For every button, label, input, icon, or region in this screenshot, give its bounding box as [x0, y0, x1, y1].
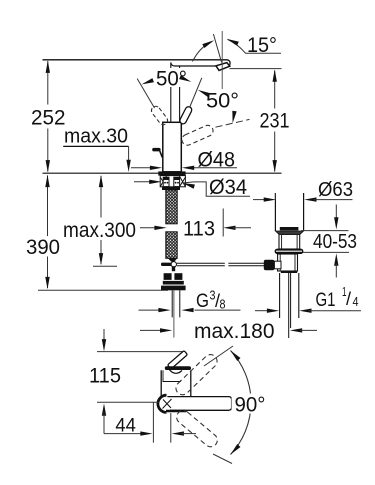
svg-text:231: 231 [260, 109, 290, 133]
max.300 bottom boundary line [93, 265, 117, 267]
dimension G1 1/4 [255, 310, 271, 312]
bottom view: lever tilted bar [167, 351, 187, 370]
drain locknut [275, 249, 304, 254]
50deg second: upper arrow [197, 88, 210, 97]
dimension max.180 [140, 329, 164, 331]
drain flange walls [274, 193, 276, 231]
svg-text:90°: 90° [235, 393, 266, 417]
spout pipes [170, 63, 172, 123]
dimension 44 [104, 433, 144, 435]
svg-text:4: 4 [353, 294, 359, 309]
bottom view: spout capsule [167, 397, 231, 411]
dimension 252 vertical line [47, 61, 49, 105]
svg-text:G1: G1 [316, 289, 336, 311]
pop-up rod knob [152, 148, 160, 152]
dashed spout up-right [173, 352, 220, 398]
extension line right of tip (231 top) [230, 68, 282, 70]
dashed right handle extension line [216, 119, 250, 127]
dimension diam48 [131, 167, 153, 169]
spout underside line [171, 63, 224, 67]
top extension line of bottom view [97, 351, 185, 353]
svg-text:Ø48: Ø48 [198, 148, 236, 172]
braided hose lower [166, 232, 177, 258]
center rod extension line [173, 290, 175, 337]
mounting flange black top bar [158, 171, 185, 175]
15 deg left arc with arrow [193, 42, 212, 62]
drain lower body [278, 254, 298, 271]
svg-text:/: / [346, 289, 351, 309]
drain upper body [279, 234, 300, 249]
15 deg right arc leader [228, 40, 281, 54]
dimension 115 [103, 329, 105, 346]
bottom view: lever horizontal bar [165, 366, 191, 370]
pop-up rod cross fitting [161, 263, 177, 266]
svg-text:44: 44 [115, 415, 136, 437]
aerator tip rhombus [216, 63, 230, 71]
spout top line (also extension line for 252) [43, 60, 231, 65]
svg-text:Ø63: Ø63 [318, 178, 353, 201]
crossing dashes inside ball [163, 399, 172, 409]
left extension line to ball [97, 401, 159, 403]
dimension diam34 leader left [134, 181, 153, 183]
horizontal pop-up rod [177, 262, 225, 264]
dimension G3/8 arrows [139, 309, 162, 311]
dimension 40-53 [301, 230, 349, 232]
hose end cone [168, 258, 177, 263]
dimension max.300 vertical [100, 176, 102, 218]
spout centerline [221, 31, 223, 89]
50deg first: right arrow [179, 75, 192, 84]
drain tailpipe [279, 273, 281, 318]
ball joint [158, 395, 167, 412]
bottom view: body cylinder [161, 370, 191, 397]
svg-text:50°: 50° [206, 89, 239, 113]
dimension 390 vertical [47, 176, 49, 237]
flange body with pipe sections [160, 176, 185, 187]
dashed left handle extension line [137, 79, 154, 108]
spout underside thick segment [166, 410, 186, 412]
svg-text:max.180: max.180 [194, 319, 275, 343]
svg-text:max.30: max.30 [64, 125, 128, 148]
dimension diam63 [274, 193, 276, 200]
svg-text:15°: 15° [247, 34, 277, 57]
svg-text:252: 252 [31, 106, 66, 130]
svg-text:40-53: 40-53 [313, 231, 357, 253]
90 deg swivel arc [231, 351, 252, 455]
dimension 231 vertical line [274, 71, 276, 109]
svg-text:113: 113 [183, 217, 215, 241]
faucet body [163, 122, 182, 172]
390 bottom boundary line [38, 289, 168, 291]
dashed spout down-right [174, 408, 220, 450]
label 50deg (first) [155, 68, 189, 87]
drain chamfer shoulder [275, 231, 303, 234]
rod knob at drain [264, 260, 275, 270]
50deg second: lower arrow [230, 111, 236, 124]
vertical extension body center [170, 413, 172, 443]
drain dark ring [281, 271, 297, 273]
svg-text:max.300: max.300 [63, 218, 136, 242]
svg-text:8: 8 [220, 297, 226, 312]
dimension diam34 leader right with bent line [182, 181, 195, 189]
solid handle extension line [190, 78, 202, 107]
deck / countertop line [43, 172, 282, 174]
knob link line [160, 151, 163, 158]
max.30 leader drop to deck [128, 146, 130, 162]
supply pipe ends below nuts [171, 290, 173, 317]
braided hose upper [166, 190, 177, 224]
vertical extension from ball left [152, 402, 154, 442]
svg-text:390: 390 [26, 235, 60, 259]
drain slot bar [280, 227, 299, 230]
15 deg tilted line [213, 34, 221, 63]
113 right extension tick (spout tip projection) [222, 209, 224, 237]
flange lower black bar [162, 187, 180, 190]
arc end extension strokes [204, 346, 233, 366]
svg-text:115: 115 [89, 364, 121, 388]
label 90deg [232, 394, 268, 414]
dimension 113 [140, 227, 158, 229]
svg-text:Ø34: Ø34 [209, 175, 247, 199]
dashed left handle capsule [150, 105, 170, 127]
dashed right handle capsule [180, 124, 215, 147]
svg-text:G: G [196, 290, 209, 312]
50deg first: left arrow [141, 78, 154, 86]
mounting nuts stack [164, 273, 172, 280]
solid handle capsule [179, 106, 193, 125]
